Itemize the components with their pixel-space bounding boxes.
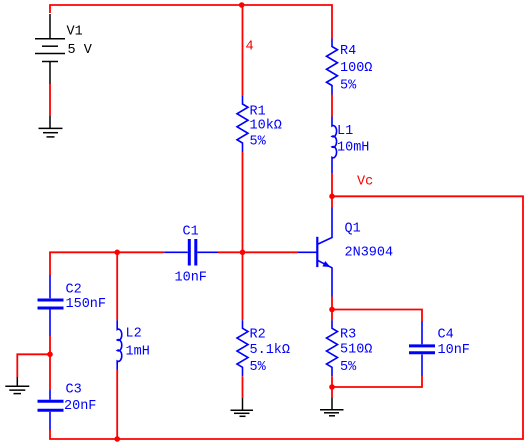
junction dot R3 bottom xyxy=(329,384,335,390)
resistor R3 xyxy=(327,320,338,376)
svg-text:L1: L1 xyxy=(337,124,353,139)
svg-text:5%: 5% xyxy=(340,79,357,94)
svg-text:R4: R4 xyxy=(340,44,356,59)
transistor Q1 xyxy=(298,208,332,297)
node Vc junction dot xyxy=(329,194,335,200)
capacitor C1 xyxy=(164,239,218,266)
ground below battery xyxy=(39,116,63,137)
svg-text:L2: L2 xyxy=(126,327,142,342)
junction dot C1/R1/base xyxy=(240,250,246,256)
svg-text:C3: C3 xyxy=(66,383,82,398)
svg-text:5.1kΩ: 5.1kΩ xyxy=(250,343,291,358)
junction dot left ground branch xyxy=(47,352,53,358)
wire R3 to ground xyxy=(331,376,333,398)
wire top bus from battery to R4 xyxy=(50,5,332,39)
Q1 emitter arrow xyxy=(322,261,330,267)
svg-text:10mH: 10mH xyxy=(337,141,369,156)
wire R1 to R2 (through C1 junction) xyxy=(242,152,244,320)
svg-text:1mH: 1mH xyxy=(126,345,150,360)
wire L1 to collector through node Vc xyxy=(331,173,333,208)
svg-text:150nF: 150nF xyxy=(66,297,107,312)
wire R4 to L1 xyxy=(331,95,333,117)
svg-text:20nF: 20nF xyxy=(64,399,96,414)
svg-text:C4: C4 xyxy=(438,328,454,343)
svg-text:C1: C1 xyxy=(183,225,199,240)
ground left xyxy=(5,377,29,394)
wire R3 bottom row to C4 bottom xyxy=(332,376,422,387)
wire node 4 vertical to R1 xyxy=(242,5,244,96)
svg-text:Q1: Q1 xyxy=(345,222,361,237)
svg-text:R1: R1 xyxy=(250,105,266,120)
node A junction dot top bus xyxy=(239,2,245,8)
wire R2 to ground xyxy=(242,376,244,398)
svg-text:5%: 5% xyxy=(250,360,267,375)
wire Vc bus right edge and bottom bus xyxy=(50,196,523,439)
svg-text:C2: C2 xyxy=(66,283,82,298)
svg-text:5%: 5% xyxy=(250,135,267,150)
resistor R4 xyxy=(327,39,338,95)
junction dot bottom bus xyxy=(114,436,120,442)
junction dot L2 top xyxy=(114,250,120,256)
wire battery to ground xyxy=(49,84,51,116)
inductor L1 xyxy=(332,117,337,174)
node emitter junction dot xyxy=(329,307,335,313)
wire L2 top xyxy=(116,252,118,320)
svg-text:4: 4 xyxy=(246,40,254,55)
svg-text:5 V: 5 V xyxy=(68,43,93,58)
svg-text:10kΩ: 10kΩ xyxy=(250,119,282,134)
svg-text:10nF: 10nF xyxy=(438,343,470,358)
svg-text:R2: R2 xyxy=(250,328,266,343)
wire C1 row left segment with corner down to C2 xyxy=(50,252,164,275)
wire L2 bottom xyxy=(116,370,118,440)
resistor R2 xyxy=(237,320,248,376)
wire emitter to R3 xyxy=(331,297,333,321)
wire emitter row to C4 top xyxy=(332,310,422,322)
svg-text:100Ω: 100Ω xyxy=(340,61,372,76)
wire to left ground xyxy=(17,354,50,377)
resistor R1 xyxy=(237,96,248,152)
svg-text:510Ω: 510Ω xyxy=(340,343,372,358)
wire C2 to C3 through left ground junction xyxy=(49,336,51,390)
ground below R2 xyxy=(231,398,254,416)
svg-text:2N3904: 2N3904 xyxy=(345,246,394,261)
svg-text:5%: 5% xyxy=(340,360,357,375)
svg-text:R3: R3 xyxy=(340,328,356,343)
capacitor C2 xyxy=(38,275,64,336)
capacitor C3 xyxy=(38,390,64,430)
wire base xyxy=(243,251,299,253)
svg-text:10nF: 10nF xyxy=(175,271,207,286)
wire C1 to mid junction xyxy=(218,251,243,253)
battery V1 xyxy=(35,14,65,84)
ground below R3 xyxy=(320,398,344,416)
inductor L2 xyxy=(117,320,122,369)
capacitor C4 xyxy=(409,321,435,376)
svg-text:V1: V1 xyxy=(67,25,83,40)
svg-text:Vc: Vc xyxy=(357,175,373,190)
